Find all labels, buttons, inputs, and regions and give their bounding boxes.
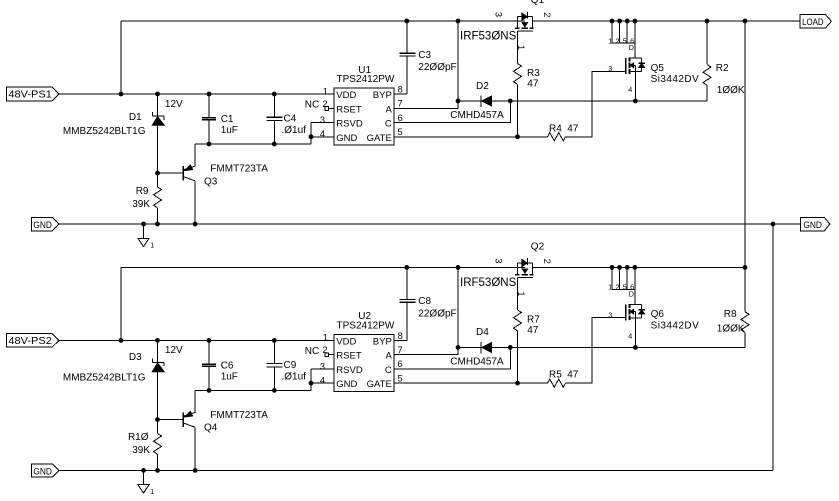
svg-text:GND: GND	[336, 379, 357, 390]
svg-text:NC: NC	[305, 100, 319, 111]
svg-text:7: 7	[398, 99, 403, 109]
svg-text:RSET: RSET	[336, 351, 362, 362]
svg-text:Si3442DV: Si3442DV	[651, 74, 700, 85]
svg-text:GND: GND	[336, 133, 357, 144]
svg-text:MMBZ5242BLT1G: MMBZ5242BLT1G	[63, 373, 146, 384]
svg-text:RSVD: RSVD	[336, 365, 363, 376]
svg-text:BYP: BYP	[373, 337, 392, 348]
svg-text:4: 4	[320, 129, 325, 139]
svg-text:A: A	[385, 351, 392, 362]
svg-text:CMHD457A: CMHD457A	[450, 357, 504, 368]
svg-text:Q4: Q4	[204, 423, 218, 434]
svg-text:1: 1	[323, 86, 328, 96]
svg-text:NC: NC	[305, 346, 319, 357]
svg-text:1: 1	[150, 489, 154, 496]
svg-text:2: 2	[616, 283, 620, 292]
svg-text:IRF53ØNS: IRF53ØNS	[460, 277, 517, 289]
svg-text:IRF53ØNS: IRF53ØNS	[460, 31, 517, 43]
svg-text:D1: D1	[129, 112, 142, 123]
svg-text:Q5: Q5	[651, 63, 665, 74]
svg-text:FMMT723TA: FMMT723TA	[210, 410, 268, 421]
svg-text:RSET: RSET	[336, 104, 362, 115]
svg-text:39K: 39K	[132, 199, 150, 210]
svg-text:C: C	[385, 119, 392, 130]
svg-text:8: 8	[398, 85, 403, 95]
svg-text:3: 3	[608, 64, 612, 73]
svg-text:6: 6	[398, 359, 403, 369]
svg-text:48V-PS1: 48V-PS1	[8, 90, 52, 101]
svg-text:48V-PS2: 48V-PS2	[8, 336, 52, 347]
svg-text:.Ø1uf: .Ø1uf	[282, 372, 307, 383]
svg-text:4: 4	[628, 85, 632, 94]
svg-text:.Ø1uf: .Ø1uf	[282, 125, 307, 136]
svg-text:CMHD457A: CMHD457A	[450, 110, 504, 121]
svg-text:D3: D3	[129, 352, 142, 363]
svg-text:GATE: GATE	[367, 133, 392, 144]
svg-text:GND: GND	[33, 466, 52, 477]
svg-text:Q2: Q2	[531, 242, 545, 253]
svg-text:1uF: 1uF	[221, 125, 238, 136]
svg-text:GND: GND	[803, 220, 822, 231]
svg-text:C1: C1	[221, 114, 234, 125]
svg-text:5: 5	[398, 127, 403, 137]
svg-text:FMMT723TA: FMMT723TA	[210, 164, 268, 175]
svg-text:5: 5	[398, 374, 403, 384]
svg-text:22ØØpF: 22ØØpF	[418, 62, 456, 73]
svg-text:VDD: VDD	[336, 90, 356, 101]
svg-text:D: D	[629, 290, 634, 299]
svg-text:BYP: BYP	[373, 90, 392, 101]
svg-text:4: 4	[320, 376, 325, 386]
svg-text:12V: 12V	[165, 345, 183, 356]
svg-text:C4: C4	[284, 114, 297, 125]
svg-text:1: 1	[150, 242, 154, 249]
svg-text:3: 3	[320, 362, 325, 372]
svg-text:Si3442DV: Si3442DV	[651, 321, 700, 332]
svg-text:1: 1	[516, 45, 526, 50]
svg-text:Q3: Q3	[204, 176, 218, 187]
svg-text:GATE: GATE	[367, 379, 392, 390]
svg-text:TPS2412PW: TPS2412PW	[337, 74, 395, 85]
svg-text:47: 47	[567, 370, 579, 381]
svg-text:RSVD: RSVD	[336, 119, 363, 130]
svg-text:12V: 12V	[165, 99, 183, 110]
svg-text:Q6: Q6	[651, 309, 665, 320]
svg-text:A: A	[385, 104, 392, 115]
svg-text:1ØØK: 1ØØK	[717, 85, 745, 96]
svg-text:D2: D2	[476, 81, 489, 92]
svg-text:3: 3	[320, 115, 325, 125]
svg-text:R4: R4	[549, 123, 562, 134]
svg-text:1: 1	[608, 36, 612, 45]
svg-text:39K: 39K	[132, 445, 150, 456]
svg-text:3: 3	[494, 12, 504, 17]
svg-text:VDD: VDD	[336, 337, 356, 348]
svg-text:1ØØK: 1ØØK	[717, 324, 745, 335]
svg-text:R3: R3	[527, 68, 540, 79]
svg-text:TPS2412PW: TPS2412PW	[337, 321, 395, 332]
svg-text:D4: D4	[476, 327, 489, 338]
svg-text:5: 5	[623, 36, 627, 45]
svg-text:47: 47	[527, 325, 539, 336]
svg-text:22ØØpF: 22ØØpF	[418, 309, 456, 320]
svg-text:C: C	[385, 365, 392, 376]
svg-text:R2: R2	[716, 63, 729, 74]
svg-text:GND: GND	[33, 220, 52, 231]
svg-text:47: 47	[567, 123, 579, 134]
svg-text:LOAD: LOAD	[802, 17, 824, 28]
svg-text:8: 8	[398, 331, 403, 341]
svg-text:3: 3	[493, 258, 503, 263]
svg-text:D: D	[629, 43, 634, 52]
svg-text:R9: R9	[136, 186, 149, 197]
svg-text:C9: C9	[284, 360, 297, 371]
svg-text:C6: C6	[221, 361, 234, 372]
svg-text:1: 1	[516, 291, 526, 296]
svg-text:Q1: Q1	[531, 0, 545, 6]
svg-text:47: 47	[527, 79, 539, 90]
svg-text:2: 2	[542, 259, 552, 264]
svg-text:2: 2	[616, 36, 620, 45]
svg-text:2: 2	[322, 99, 327, 109]
svg-text:C3: C3	[418, 50, 431, 61]
svg-text:R8: R8	[724, 309, 737, 320]
svg-text:6: 6	[398, 113, 403, 123]
svg-text:3: 3	[608, 311, 612, 320]
svg-text:R1Ø: R1Ø	[128, 432, 149, 443]
svg-text:2: 2	[542, 12, 552, 17]
svg-text:7: 7	[398, 345, 403, 355]
svg-text:1: 1	[323, 333, 328, 343]
svg-text:5: 5	[623, 283, 627, 292]
svg-text:MMBZ5242BLT1G: MMBZ5242BLT1G	[63, 126, 146, 137]
svg-text:R7: R7	[527, 314, 540, 325]
svg-text:1: 1	[608, 283, 612, 292]
svg-text:1uF: 1uF	[221, 372, 238, 383]
svg-text:2: 2	[322, 345, 327, 355]
svg-text:4: 4	[628, 332, 632, 341]
svg-text:C8: C8	[418, 296, 431, 307]
svg-text:R5: R5	[549, 370, 562, 381]
